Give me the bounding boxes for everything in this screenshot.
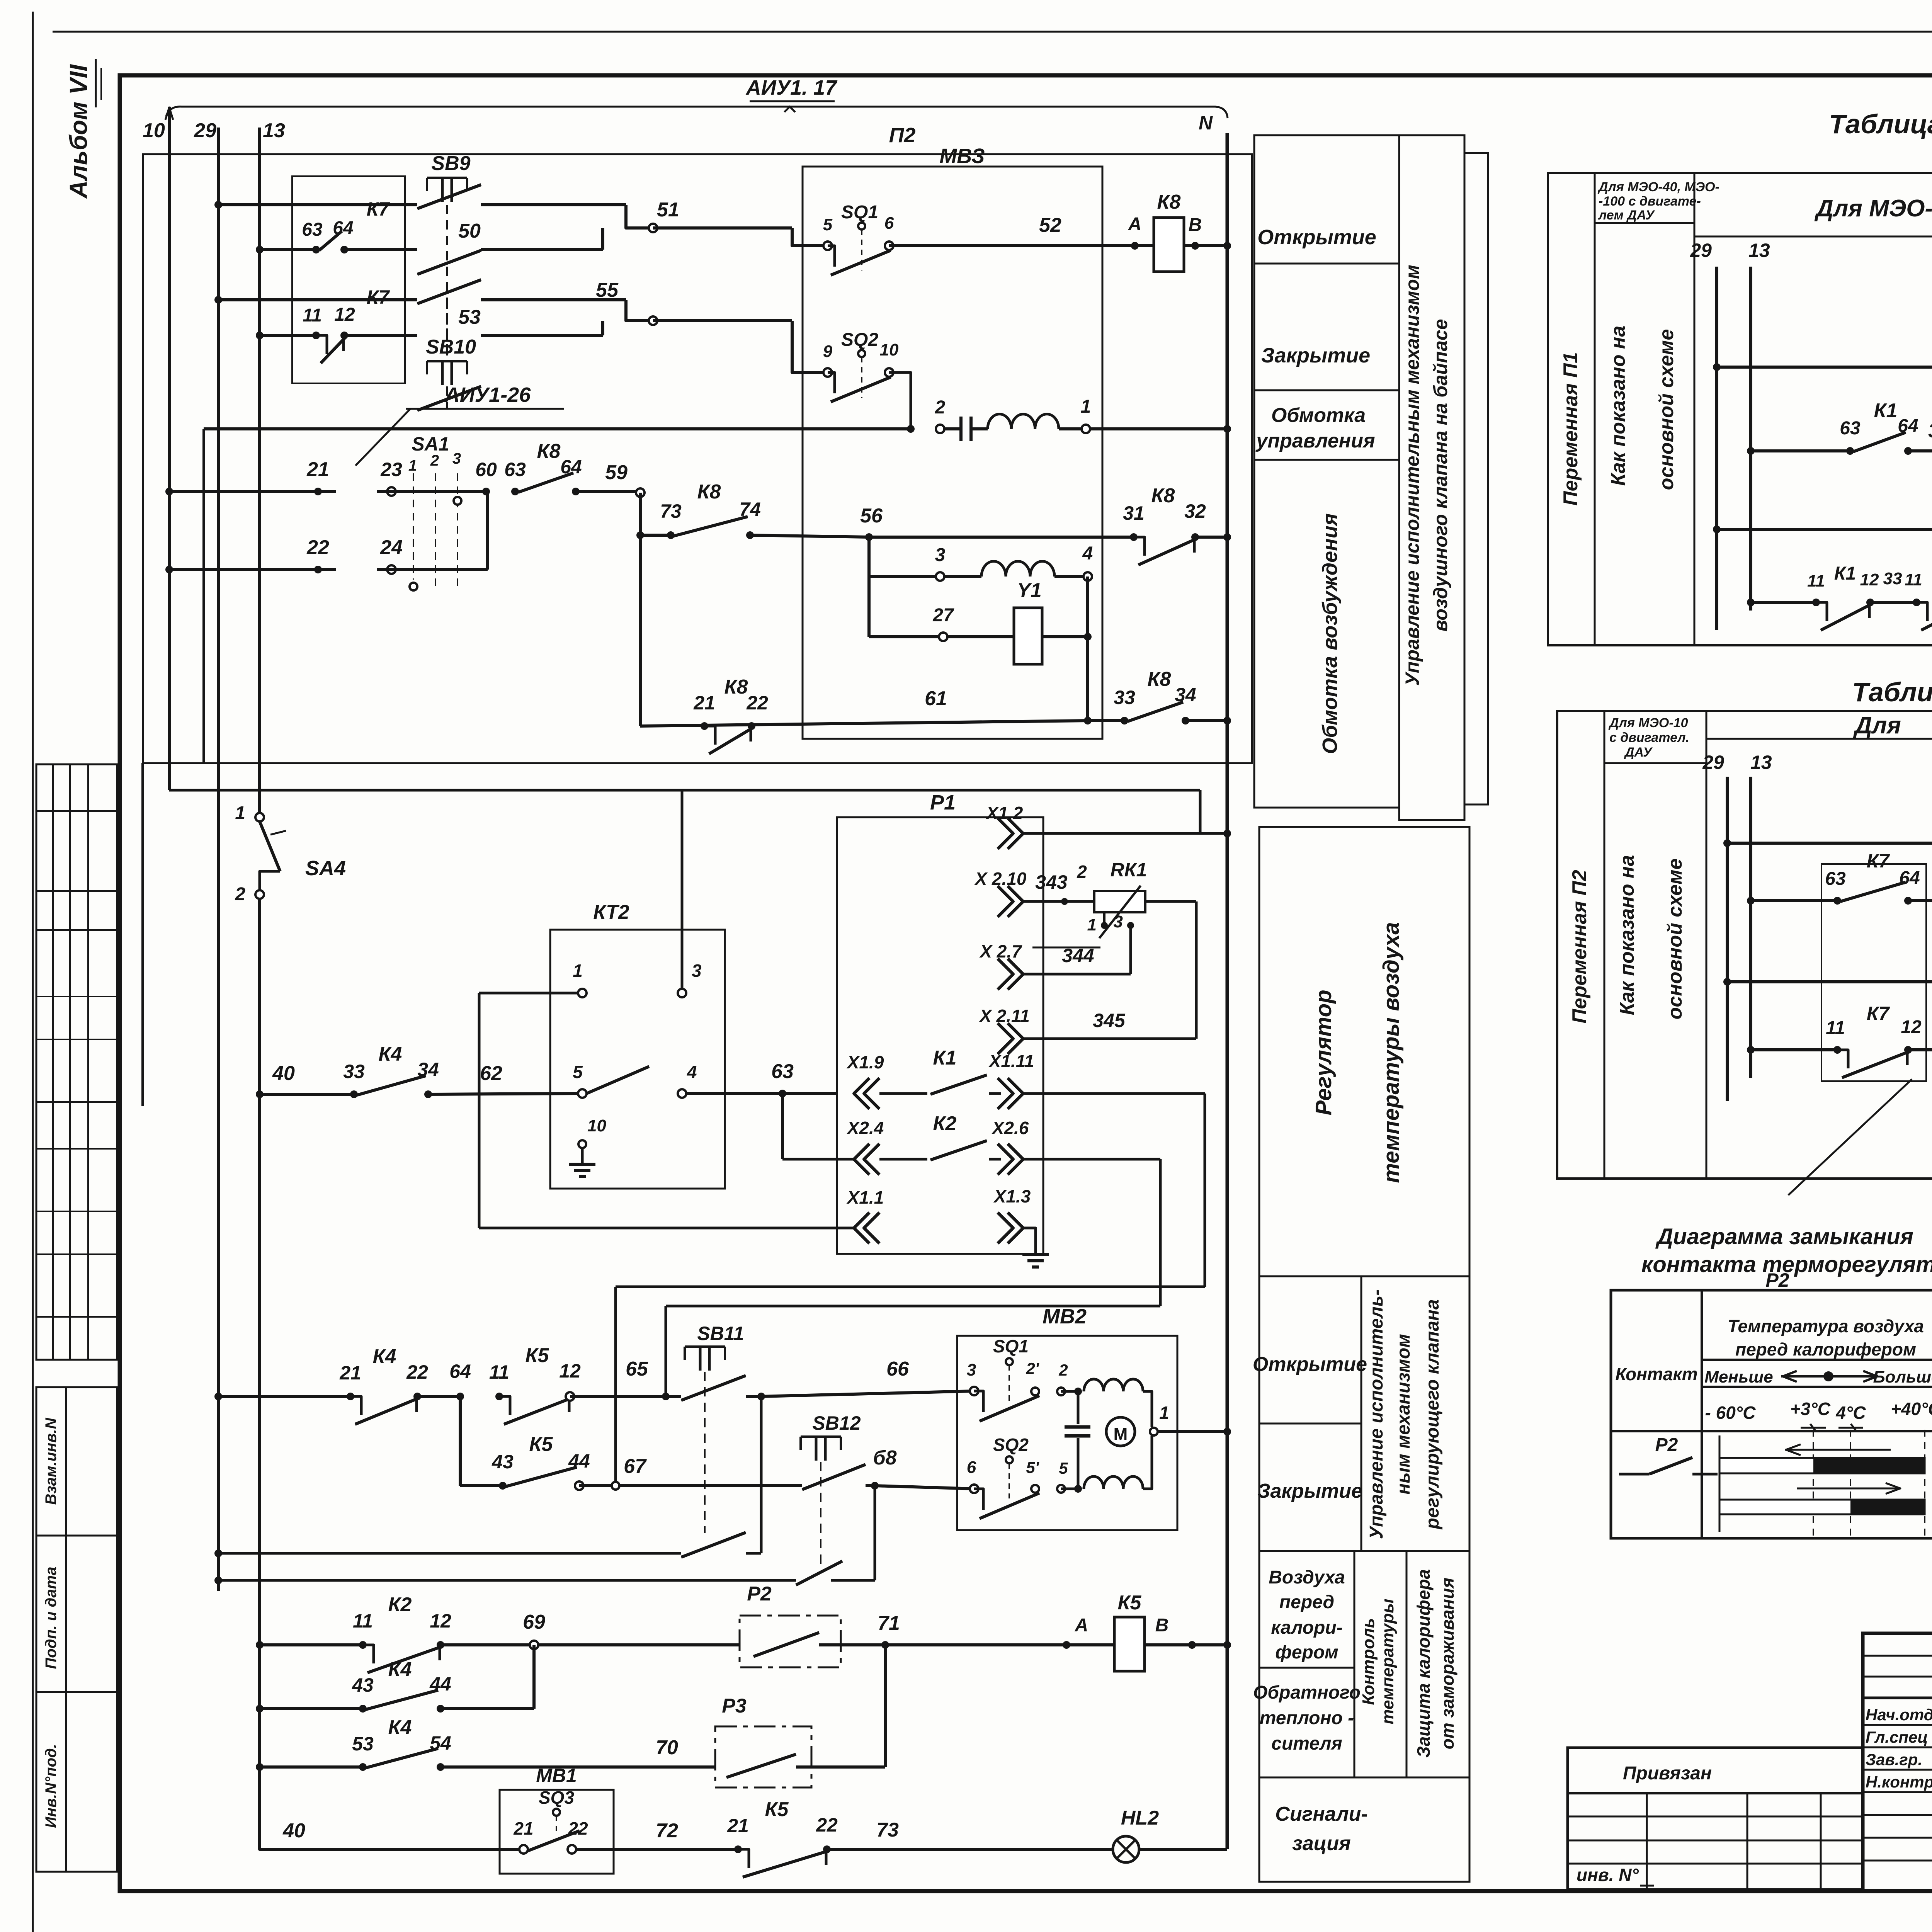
svg-text:К2: К2: [933, 1112, 957, 1135]
svg-text:регулирующего клапана: регулирующего клапана: [1422, 1299, 1443, 1530]
svg-text:К4: К4: [388, 1716, 412, 1739]
svg-text:К5: К5: [529, 1433, 553, 1456]
svg-text:22: 22: [406, 1361, 428, 1383]
svg-text:МВ1: МВ1: [536, 1765, 577, 1786]
limit switch SQ1 (MV2): [967, 1336, 1078, 1421]
svg-text:Р2: Р2: [747, 1583, 772, 1605]
svg-text:22: 22: [816, 1814, 838, 1836]
box P1 (regulator): [837, 791, 1043, 1254]
svg-text:HL2: HL2: [1121, 1807, 1159, 1829]
svg-text:сителя: сителя: [1271, 1733, 1342, 1754]
label Regulyator temperatury vozdukha: [1259, 922, 1469, 1276]
label Peremennaya P2: [1568, 870, 1591, 1024]
svg-text:22: 22: [306, 536, 329, 559]
bus 13 lower part: [258, 895, 261, 1849]
svg-text:К1: К1: [1874, 400, 1898, 422]
svg-text:А: А: [1128, 214, 1142, 235]
svg-text:64: 64: [1899, 868, 1920, 888]
limit switch SQ2 (MV2): [967, 1435, 1078, 1519]
bus 10: [143, 107, 173, 790]
svg-text:70: 70: [656, 1736, 678, 1759]
svg-text:44: 44: [568, 1450, 590, 1472]
title Diagramma zamykaniya P2: [1641, 1224, 1932, 1291]
svg-text:Защита калорифера: Защита калорифера: [1413, 1569, 1434, 1758]
svg-text:Н.контр.: Н.контр.: [1866, 1773, 1932, 1791]
svg-text:2: 2: [430, 452, 439, 469]
svg-text:К4: К4: [379, 1043, 402, 1065]
wire 55 to MV3: [653, 321, 828, 372]
svg-text:К4: К4: [373, 1345, 396, 1368]
svg-text:температуры воздуха: температуры воздуха: [1379, 922, 1404, 1183]
svg-text:11: 11: [353, 1610, 373, 1632]
connector X1.2: [985, 803, 1231, 849]
bus 29: [194, 119, 218, 1591]
pushbutton SB10 (P2): [1723, 925, 1932, 1078]
contact K8 21-22: [693, 676, 768, 754]
svg-text:АИУ1. 17: АИУ1. 17: [745, 76, 838, 99]
connector X1.1: [479, 993, 884, 1243]
svg-text:П2: П2: [889, 124, 916, 147]
diagram P2 contact symbol: [1619, 1435, 1718, 1474]
diagram P2 bar 2: [1719, 1499, 1925, 1515]
pushbutton SB9: [417, 152, 626, 348]
svg-text:344: 344: [1062, 945, 1094, 966]
svg-text:Переменная П1: Переменная П1: [1560, 352, 1582, 506]
svg-text:13: 13: [263, 119, 285, 142]
svg-text:69: 69: [523, 1611, 545, 1633]
svg-text:Р1: Р1: [930, 791, 956, 814]
svg-text:12: 12: [334, 304, 355, 325]
svg-text:инв. N°: инв. N°: [1577, 1865, 1639, 1885]
bus N main: [1226, 133, 1229, 1849]
table P1 header text: [1814, 195, 1932, 222]
svg-text:Обмотка: Обмотка: [1271, 404, 1366, 427]
wire 66: [761, 1358, 974, 1396]
svg-text:23: 23: [380, 459, 402, 480]
svg-text:SB12: SB12: [812, 1412, 861, 1434]
table P1 corner cell text: [1597, 180, 1719, 223]
svg-text:X 2.7: X 2.7: [979, 941, 1022, 961]
diagram table P2 box: [1611, 1290, 1932, 1538]
svg-text:60: 60: [475, 459, 497, 480]
svg-text:24: 24: [380, 536, 403, 559]
svg-text:К8: К8: [1157, 191, 1181, 213]
contact P2 (thermostat): [740, 1583, 841, 1667]
label Kak pokazano (P2): [1616, 855, 1686, 1020]
svg-text:К2: К2: [388, 1594, 412, 1616]
pushbutton SB12: [801, 1412, 879, 1570]
contact K5 43-44 branch: [460, 1396, 802, 1490]
svg-text:21: 21: [306, 458, 329, 481]
svg-text:34: 34: [1175, 684, 1196, 706]
svg-text:Для: Для: [1853, 712, 1901, 739]
svg-text:Открытие: Открытие: [1253, 1353, 1367, 1376]
svg-text:Обмотка возбуждения: Обмотка возбуждения: [1318, 513, 1342, 754]
bracket AIU1.17: [166, 76, 1228, 118]
branch to excitation winding: [867, 537, 871, 637]
label Obratnogo teplonositelya: [1253, 1682, 1361, 1754]
contact K7 11-12 (P2): [1747, 1003, 1932, 1078]
label Zakrytie (valve close): [1254, 344, 1399, 390]
svg-text:11: 11: [1807, 571, 1825, 590]
svg-text:SA4: SA4: [305, 857, 346, 880]
wire 71 / relay coil K5: [841, 1592, 1231, 1671]
connector X2.10 / resistor RK1: [974, 859, 1197, 974]
svg-text:перед: перед: [1279, 1592, 1334, 1612]
svg-text:Диаграмма замыкания: Диаграмма замыкания: [1655, 1224, 1913, 1249]
diagram P2 bar 1: [1719, 1457, 1925, 1474]
title Tablitsa peremennogo uzla P1: [1829, 109, 1932, 139]
svg-text:33: 33: [1883, 569, 1902, 588]
svg-text:56: 56: [860, 505, 883, 527]
svg-text:+3°С: +3°С: [1790, 1399, 1831, 1419]
wire 51 to MV3: [653, 228, 828, 246]
wire 40-33-34-62 row: [256, 1062, 354, 1098]
svg-text:5: 5: [573, 1062, 583, 1082]
svg-text:34: 34: [417, 1059, 439, 1080]
svg-text:63: 63: [1840, 418, 1861, 439]
contact K2 11-12: [353, 1594, 740, 1673]
label Inv.N pod.: [43, 1744, 60, 1828]
svg-text:74: 74: [739, 498, 761, 520]
bus 29 (P1): [1690, 240, 1717, 630]
connector X2.7 wire 344: [979, 941, 1131, 990]
wire row P3 (70): [256, 1716, 715, 1771]
svg-text:Р2: Р2: [1765, 1269, 1789, 1291]
svg-text:Как показано на: Как показано на: [1616, 855, 1638, 1015]
pushbutton SB11: [666, 1323, 765, 1533]
svg-text:В: В: [1189, 215, 1202, 235]
label Obmotka upravleniya: [1254, 404, 1399, 460]
svg-text:В: В: [1155, 1615, 1169, 1636]
bus 13: [260, 119, 285, 817]
svg-text:X2.6: X2.6: [991, 1118, 1029, 1138]
svg-text:2: 2: [1077, 862, 1087, 882]
svg-text:Для МЭО-16. МЭО-40: Для МЭО-16. МЭО-40: [1814, 195, 1932, 222]
box AIU1-26 (K7 unit): [292, 176, 564, 466]
switch SA1: [377, 433, 486, 591]
diagram P2 header text: [1615, 1316, 1932, 1386]
svg-text:72: 72: [656, 1820, 678, 1842]
svg-text:Сигнали-: Сигнали-: [1275, 1803, 1367, 1825]
svg-text:N: N: [1199, 112, 1213, 134]
svg-text:3: 3: [452, 450, 461, 467]
svg-text:К7: К7: [367, 198, 390, 220]
left stamp strip upper block: [36, 764, 117, 1360]
svg-text:13: 13: [1748, 240, 1770, 261]
svg-text:Y1: Y1: [1017, 579, 1042, 602]
svg-text:К8: К8: [537, 440, 561, 463]
contact K1 63-64: [1747, 400, 1932, 455]
bus 13 (P1): [1748, 240, 1770, 611]
svg-text:67: 67: [624, 1455, 647, 1478]
svg-text:10: 10: [143, 119, 165, 142]
svg-text:Привязан: Привязан: [1623, 1763, 1712, 1784]
svg-text:5: 5: [823, 215, 833, 234]
svg-text:К1: К1: [933, 1047, 957, 1069]
svg-text:Переменная П2: Переменная П2: [1568, 870, 1591, 1024]
node 59 vertical: [639, 493, 642, 726]
svg-text:5': 5': [1026, 1458, 1039, 1476]
svg-text:Инв.N°под.: Инв.N°под.: [43, 1744, 60, 1828]
label Signalizatsiya: [1259, 1777, 1469, 1855]
box P2 (upper unit): [143, 124, 1252, 763]
svg-text:4: 4: [687, 1062, 697, 1082]
svg-text:63: 63: [302, 219, 323, 240]
svg-text:фером: фером: [1275, 1642, 1338, 1663]
svg-text:12: 12: [1901, 1017, 1922, 1037]
contact K8 63-64 (row 21): [475, 440, 645, 497]
svg-text:X1.1: X1.1: [846, 1187, 884, 1207]
svg-text:63: 63: [1825, 869, 1846, 889]
svg-text:3: 3: [692, 961, 702, 981]
table P2 outer box: [1557, 711, 1932, 1179]
svg-text:11: 11: [303, 305, 322, 326]
timer KT2 box: [550, 901, 725, 1189]
label Kontrol temperatury: [1359, 1551, 1406, 1777]
label Albom VII: [65, 59, 101, 199]
lamp HL2 wire 73: [876, 1807, 1227, 1862]
svg-text:61: 61: [925, 687, 947, 710]
KT2 contact 5-4: [573, 1062, 782, 1098]
svg-text:основной схеме: основной схеме: [1655, 329, 1678, 490]
svg-text:теплоно -: теплоно -: [1260, 1708, 1354, 1728]
table P1 outer box: [1548, 173, 1932, 645]
pushbutton SB7: [1713, 305, 1932, 580]
svg-text:Зав.гр.: Зав.гр.: [1866, 1750, 1922, 1769]
svg-text:4°С: 4°С: [1835, 1403, 1866, 1423]
svg-text:63: 63: [771, 1060, 794, 1083]
svg-text:температуры: температуры: [1378, 1599, 1397, 1724]
wire 61: [640, 687, 1092, 726]
winding 3-4: [869, 543, 1093, 581]
wire 68: [873, 1447, 974, 1489]
svg-text:59: 59: [605, 461, 628, 484]
svg-text:13: 13: [1750, 752, 1772, 773]
contact K8 73-74: [636, 481, 869, 539]
connector X2.11 wire 345: [978, 901, 1196, 1054]
label Peremennaya P1: [1560, 352, 1582, 506]
svg-text:Нач.отд.: Нач.отд.: [1866, 1706, 1932, 1724]
node 51: [626, 199, 679, 232]
svg-text:54: 54: [430, 1732, 451, 1754]
svg-text:Больше: Больше: [1873, 1367, 1932, 1386]
wire 52 / relay coil K8: [1039, 191, 1231, 272]
svg-text:К4: К4: [388, 1658, 412, 1681]
wire row open MV2: [214, 1393, 350, 1400]
svg-text:64: 64: [449, 1361, 471, 1382]
diagram P2 chart grid: [1719, 1430, 1925, 1536]
svg-text:345: 345: [1093, 1010, 1126, 1031]
svg-text:Таблица: Таблица: [1852, 677, 1932, 707]
wire 53: [458, 306, 603, 335]
svg-text:Р2: Р2: [1655, 1435, 1678, 1455]
label Otkrytie (valve open): [1254, 226, 1399, 264]
svg-text:343: 343: [1035, 871, 1068, 893]
svg-text:X1.11: X1.11: [988, 1051, 1034, 1071]
svg-text:11: 11: [489, 1361, 509, 1383]
svg-text:53: 53: [352, 1733, 374, 1755]
SB11 lower contact: [214, 1396, 761, 1557]
svg-text:Температура воздуха: Температура воздуха: [1728, 1316, 1924, 1336]
limit switch SQ1 (MV3): [823, 202, 1135, 275]
wire row P2: [256, 1641, 363, 1649]
svg-text:- 60°С: - 60°С: [1705, 1403, 1756, 1423]
svg-text:Обратного: Обратного: [1253, 1682, 1361, 1703]
svg-text:SB10: SB10: [426, 336, 476, 358]
svg-text:64: 64: [1898, 416, 1918, 436]
svg-text:1: 1: [1081, 396, 1091, 417]
svg-text:SQ2: SQ2: [841, 330, 878, 350]
svg-text:-100 с двигате-: -100 с двигате-: [1599, 194, 1701, 209]
svg-text:32: 32: [1184, 500, 1206, 522]
svg-text:71: 71: [878, 1612, 900, 1634]
wire bus13 to K7: [256, 246, 316, 253]
svg-text:SA1: SA1: [412, 433, 449, 455]
svg-text:Воздуха: Воздуха: [1269, 1567, 1345, 1588]
svg-text:основной схеме: основной схеме: [1664, 859, 1686, 1020]
motor MV2 windings: [1065, 1379, 1231, 1493]
annotation column upper box: [1254, 135, 1488, 820]
title block grid left part: [1863, 1633, 1932, 1891]
svg-text:К7: К7: [367, 286, 390, 308]
svg-text:Контроль: Контроль: [1359, 1618, 1378, 1705]
svg-text:1: 1: [235, 803, 245, 823]
svg-text:1: 1: [408, 457, 417, 474]
svg-text:11: 11: [1826, 1018, 1845, 1038]
contact K8 31-32: [1123, 485, 1231, 565]
svg-text:40: 40: [282, 1820, 305, 1842]
phase line to P1: [169, 790, 1200, 833]
svg-text:управления: управления: [1255, 430, 1375, 452]
wire 72 / contact K5 21-22: [656, 1798, 1113, 1877]
solenoid Y1: [869, 577, 1092, 721]
contact P3 (thermostat): [715, 1645, 885, 1787]
svg-text:X 2.11: X 2.11: [978, 1006, 1030, 1026]
node 63: [771, 1060, 837, 1159]
table P2 corner cell text: [1608, 716, 1689, 760]
svg-text:29: 29: [1690, 240, 1712, 261]
svg-text:1: 1: [1087, 915, 1097, 934]
connector X2.4 contact K2 connector X2.6: [782, 1112, 1160, 1175]
table P2 header text: [1853, 712, 1932, 739]
KT2 pins 1-3: [479, 790, 702, 997]
svg-text:зация: зация: [1292, 1832, 1350, 1855]
title Tablitsa peremennogo uzla P2: [1852, 677, 1932, 707]
left stamp strip lower block: [36, 1387, 117, 1872]
svg-text:5: 5: [1059, 1459, 1068, 1477]
privyazan extension table: [1568, 1748, 1863, 1889]
svg-text:с двигател.: с двигател.: [1609, 730, 1689, 745]
svg-text:Контакт: Контакт: [1615, 1364, 1697, 1384]
svg-text:Меньше: Меньше: [1704, 1367, 1773, 1386]
svg-text:65: 65: [626, 1358, 648, 1380]
label Vzam.inv.N: [43, 1417, 60, 1505]
svg-text:Таблица: Таблица: [1829, 109, 1932, 139]
svg-text:50: 50: [458, 220, 481, 242]
MV2 box: [957, 1305, 1177, 1530]
svg-text:33: 33: [1114, 687, 1135, 708]
svg-text:3: 3: [967, 1361, 976, 1379]
svg-text:МВ2: МВ2: [1043, 1305, 1087, 1328]
KT2 pin 10 ground: [569, 1116, 606, 1177]
svg-text:+40°С: +40°С: [1891, 1399, 1932, 1419]
contact K7 63-64: [302, 198, 417, 253]
link wire X2.6 to node 65: [666, 1159, 1160, 1396]
svg-text:21: 21: [339, 1362, 361, 1384]
svg-text:22: 22: [568, 1818, 588, 1838]
svg-text:44: 44: [429, 1673, 451, 1695]
svg-text:21: 21: [513, 1818, 533, 1838]
svg-text:66: 66: [886, 1358, 909, 1380]
svg-text:Для МЭО-40, МЭО-: Для МЭО-40, МЭО-: [1597, 180, 1719, 194]
svg-text:40: 40: [272, 1062, 295, 1085]
svg-text:Р3: Р3: [722, 1695, 747, 1717]
wire 21 from bus 10: [165, 458, 336, 495]
label Zakrytie (reg valve): [1257, 1480, 1469, 1551]
inv number label: [1577, 1865, 1654, 1886]
link wire X1.11 to SB11 branch: [616, 1094, 1205, 1486]
MV3 box (main): [803, 145, 1102, 739]
wire 22-24: [165, 492, 488, 574]
svg-text:33: 33: [343, 1061, 365, 1082]
contact K7 63-64 (P2): [1747, 850, 1932, 905]
contacts K1 11-12 and K6 11-12 row: [1747, 529, 1932, 630]
svg-text:SB9: SB9: [431, 152, 470, 175]
svg-text:К7: К7: [1867, 1003, 1890, 1024]
limit switch SQ2 (MV3): [823, 330, 911, 429]
svg-text:64: 64: [560, 456, 582, 478]
svg-text:К8: К8: [1148, 668, 1171, 690]
contact K8 33-34: [1088, 668, 1231, 724]
svg-text:29: 29: [1702, 752, 1724, 773]
svg-text:от замораживания: от замораживания: [1437, 1578, 1458, 1749]
connector X1.3 with ground: [993, 1186, 1049, 1267]
svg-text:2: 2: [1058, 1361, 1068, 1379]
svg-text:лем ДАУ: лем ДАУ: [1598, 208, 1655, 223]
svg-text:А: А: [1075, 1615, 1088, 1636]
svg-text:RК1: RК1: [1111, 859, 1147, 881]
svg-text:1: 1: [573, 961, 583, 981]
annotation column lower box: [1259, 827, 1469, 1882]
svg-text:63: 63: [504, 459, 526, 480]
svg-text:К5: К5: [526, 1344, 549, 1367]
title block outer: [1863, 1633, 1932, 1891]
connector X1.9 contact K1 connector X1.11: [846, 1047, 1205, 1109]
svg-text:6: 6: [967, 1458, 976, 1477]
pushbutton SB10: [417, 280, 626, 410]
svg-text:12: 12: [430, 1610, 451, 1632]
label N (main): [1199, 112, 1213, 134]
svg-text:21: 21: [727, 1815, 749, 1837]
svg-text:21: 21: [693, 692, 715, 714]
svg-text:ДАУ: ДАУ: [1624, 745, 1653, 760]
svg-text:К5: К5: [765, 1798, 789, 1821]
svg-text:Альбом VII: Альбом VII: [65, 64, 92, 199]
svg-text:Управление исполнительным ме: Управление исполнительным механизмом: [1401, 265, 1423, 686]
svg-text:27: 27: [932, 605, 954, 626]
pushbutton SB9 (P2): [1723, 806, 1932, 1078]
contact K5 11-12: [449, 1344, 670, 1424]
label Upravlenie ispolnitelnym (bypass valve): [1401, 265, 1451, 686]
label Vozdukha pered kaloriferom: [1259, 1551, 1354, 1777]
svg-text:Гл.спец: Гл.спец: [1866, 1728, 1928, 1746]
svg-text:51: 51: [657, 199, 679, 221]
wire 56: [860, 505, 1134, 541]
svg-text:SQ1: SQ1: [841, 202, 878, 223]
svg-text:Для МЭО-10: Для МЭО-10: [1608, 716, 1688, 730]
pushbutton SB8: [1713, 469, 1932, 634]
